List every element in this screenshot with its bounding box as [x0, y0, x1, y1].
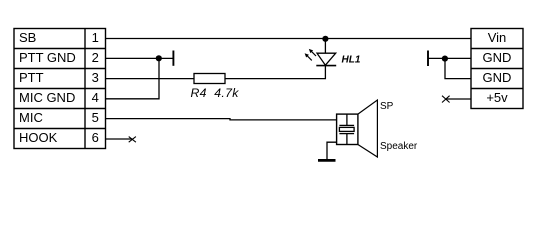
- svg-text:4: 4: [92, 90, 99, 105]
- svg-text:6: 6: [92, 130, 99, 145]
- svg-text:2: 2: [92, 50, 99, 65]
- speaker SP body: [337, 114, 358, 144]
- LED HL1 symbol: [305, 49, 336, 65]
- junction dot GND: [442, 56, 448, 62]
- wire GND (lower) up to junction: [445, 59, 471, 79]
- no-connect X on HOOK: [129, 137, 136, 143]
- svg-text:HOOK: HOOK: [19, 130, 58, 145]
- speaker cone: [358, 100, 378, 157]
- svg-text:Vin: Vin: [488, 30, 507, 45]
- junction dot on SB/Vin line at LED anode: [322, 36, 328, 42]
- svg-text:GND: GND: [483, 50, 512, 65]
- wire MIC (pin 5) to speaker: [106, 119, 337, 120]
- terminal bar on GND wire: [427, 51, 429, 67]
- svg-text:3: 3: [92, 70, 99, 85]
- wire net SB/Vin (pin 1 to Vin): [106, 38, 472, 40]
- svg-text:HL1: HL1: [342, 55, 361, 66]
- svg-text:GND: GND: [483, 70, 512, 85]
- svg-text:1: 1: [92, 30, 99, 45]
- resistor R4: [194, 74, 225, 84]
- svg-text:+5v: +5v: [486, 90, 508, 105]
- wire R4 to LED cathode: [225, 66, 325, 79]
- svg-text:PTT: PTT: [19, 70, 44, 85]
- svg-text:SB: SB: [19, 30, 36, 45]
- svg-text:SP: SP: [380, 101, 394, 112]
- svg-text:MIC: MIC: [19, 110, 43, 125]
- wire PTT (pin 3) to R4: [106, 78, 195, 80]
- wire +5v stub: [446, 98, 471, 100]
- connector J1 (left 6-pin) body: [14, 29, 106, 149]
- wire GND (upper) to terminal: [428, 57, 471, 59]
- wire speaker lower terminal to ground: [327, 142, 337, 160]
- svg-text:R4 4.7k: R4 4.7k: [191, 86, 240, 100]
- junction dot pin2/pin4: [156, 55, 162, 61]
- connector J2 (right 4-pin) body: [471, 29, 523, 109]
- svg-text:Speaker: Speaker: [380, 141, 418, 152]
- svg-text:5: 5: [92, 110, 99, 125]
- wire PTT GND (pin 2) to terminal: [106, 57, 174, 59]
- wire LED anode: [324, 39, 326, 53]
- terminal bar on pin 2 wire: [172, 51, 174, 66]
- wire MIC GND (pin 4) up to junction: [106, 58, 160, 98]
- svg-text:MIC GND: MIC GND: [19, 90, 75, 105]
- ground: [318, 159, 336, 162]
- no-connect X on +5v: [442, 96, 450, 103]
- wire HOOK (pin 6) stub: [106, 138, 133, 140]
- svg-text:PTT GND: PTT GND: [19, 50, 76, 65]
